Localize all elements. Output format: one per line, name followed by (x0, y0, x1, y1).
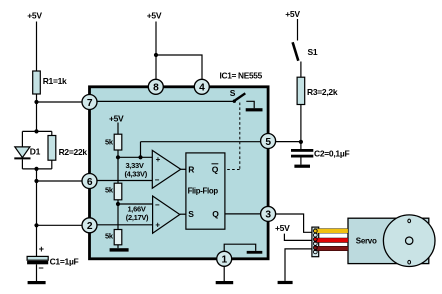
wire pin6 to comp1 minus (97, 180, 153, 182)
svg-text:4: 4 (199, 83, 205, 94)
resistor 5k first (114, 134, 122, 150)
pin 2 (82, 218, 97, 233)
svg-text:IC1= NE555: IC1= NE555 (220, 71, 263, 81)
wire R3 to C2 node (300, 105, 302, 150)
pin 5 (261, 134, 276, 149)
servo connector (312, 227, 319, 257)
servo screw top (408, 219, 411, 223)
svg-text:+5V: +5V (27, 11, 42, 21)
node divider 1/3 (116, 202, 120, 206)
wire +5V to pin8 (155, 22, 157, 81)
svg-text:+5V: +5V (147, 11, 162, 21)
connector pin rings (313, 229, 317, 254)
diode D1 (14, 131, 30, 169)
svg-text:+: + (156, 155, 161, 164)
ground below C1 (28, 281, 46, 284)
svg-text:8: 8 (153, 83, 159, 94)
wire pin1 to ground (223, 266, 225, 281)
wire pin7 connection (37, 101, 83, 103)
node bottom parallel (34, 167, 38, 171)
wire to comp1 plus input (118, 156, 152, 158)
svg-text:Flip-Flop: Flip-Flop (188, 186, 219, 195)
svg-text:5k: 5k (105, 138, 114, 147)
svg-text:R: R (188, 165, 194, 175)
wire pin6 connection (37, 180, 83, 182)
node pin2 (34, 223, 38, 227)
svg-text:C2=0,1µF: C2=0,1µF (314, 148, 349, 158)
wire to comp2 minus input (118, 203, 153, 205)
resistor 5k third (114, 230, 122, 245)
wire parallel top node (22, 130, 51, 132)
op-amp comparator2 (153, 196, 180, 233)
internal ground below divider (110, 248, 129, 251)
svg-text:+: + (39, 244, 44, 254)
wire divider rail (117, 150, 119, 183)
ground below servo wires (278, 281, 293, 284)
servo screw bottom (408, 260, 411, 264)
servo output disc (383, 215, 435, 267)
svg-text:(4,33V): (4,33V) (124, 169, 147, 178)
node pin5/R3 (299, 140, 303, 144)
svg-text:R2=22k: R2=22k (59, 147, 88, 157)
wire Q to pin3 (225, 213, 261, 215)
wire pin5 to node (275, 141, 301, 143)
node switch pivot (233, 100, 236, 103)
flip-flop U2 box (186, 153, 225, 229)
wire S1 to R3 (300, 62, 302, 78)
wire red supply (314, 238, 348, 243)
node control voltage (138, 155, 142, 159)
svg-text:5k: 5k (105, 232, 114, 241)
wire maroon ground (314, 246, 348, 251)
svg-text:5k: 5k (105, 186, 114, 195)
svg-text:D1: D1 (30, 146, 41, 156)
svg-text:5: 5 (265, 137, 271, 148)
servo hub (406, 237, 413, 244)
op-amp comparator1 (152, 150, 180, 188)
node top parallel (34, 129, 38, 133)
wire ground to connector (285, 249, 312, 281)
servo body (348, 218, 429, 263)
resistor R2 (48, 131, 56, 169)
IC1 NE555 body (90, 87, 269, 259)
svg-text:R3=2,2k: R3=2,2k (307, 87, 338, 97)
svg-text:−: − (155, 200, 160, 209)
wire +5V to connector (284, 234, 312, 241)
svg-text:R1=1k: R1=1k (43, 76, 67, 86)
wire pin1 internal (224, 244, 256, 251)
svg-text:Q: Q (212, 209, 219, 219)
internal switch S blade (234, 93, 245, 101)
wire yellow signal (314, 228, 348, 233)
wire pin2 to comp2 plus (97, 224, 153, 226)
wire control voltage vertical (140, 142, 142, 158)
svg-text:(2,17V): (2,17V) (126, 213, 149, 222)
wire parallel bottom node (22, 168, 51, 170)
svg-text:+5V: +5V (285, 9, 300, 19)
node R1/pin7 (34, 100, 38, 104)
ground below C2 (294, 165, 310, 168)
node pin8 branch (154, 53, 158, 57)
svg-text:+: + (155, 221, 160, 230)
svg-text:S: S (230, 88, 236, 98)
svg-text:−: − (38, 263, 43, 273)
wire +5V to S1 (297, 19, 299, 41)
wire branch to pin4 (156, 55, 202, 80)
svg-text:2: 2 (87, 221, 93, 232)
svg-text:−: − (155, 176, 160, 185)
svg-text:S1: S1 (308, 47, 318, 57)
wire divider rail lower (117, 200, 119, 230)
capacitor C2 (291, 149, 313, 165)
svg-text:+5V: +5V (109, 113, 124, 123)
resistor R3 (297, 77, 305, 104)
Qbar overline (212, 163, 219, 165)
svg-text:+5V: +5V (275, 223, 290, 233)
svg-text:Servo: Servo (356, 236, 377, 245)
wire internal +5V stub (117, 123, 119, 135)
wire comp2 output (180, 213, 186, 215)
pin 4 (194, 79, 209, 94)
wire left rail down (36, 169, 38, 257)
dashed wire Qbar horizontal (227, 169, 240, 171)
svg-text:S: S (188, 209, 194, 219)
switch S1 blade (293, 42, 299, 60)
svg-text:Q: Q (212, 165, 219, 175)
svg-text:3: 3 (265, 210, 271, 221)
node divider 2/3 (116, 155, 120, 159)
wire comp1 output (181, 168, 186, 170)
pin 3 (261, 206, 276, 221)
wire switch contact (246, 101, 254, 108)
pin 7 (82, 95, 97, 110)
wire pin3 to connector (275, 214, 312, 232)
resistor R1 (33, 71, 41, 94)
node pin6 (34, 179, 38, 183)
ground below pin1 (216, 281, 234, 284)
wire pin2 connection (37, 224, 83, 226)
wire +5V to R1 (36, 22, 38, 72)
pin 8 (148, 79, 163, 94)
dashed wire Qbar vertical to switch (239, 103, 241, 170)
resistor 5k second (114, 183, 122, 200)
pin 6 (82, 174, 97, 189)
pin 1 (217, 251, 232, 266)
wire pin7 internal to switch (97, 100, 235, 102)
internal ground near pin1 (247, 251, 263, 254)
svg-text:7: 7 (87, 98, 93, 109)
svg-text:C1=1µF: C1=1µF (50, 256, 79, 266)
svg-text:1: 1 (222, 255, 228, 266)
internal ground at switch (246, 108, 263, 111)
capacitor C1 (27, 256, 48, 281)
wire R1 to parallel group (36, 94, 38, 131)
wire 5k third to ground (117, 245, 119, 248)
wire pin5 internal line (141, 141, 263, 143)
svg-text:6: 6 (87, 177, 93, 188)
